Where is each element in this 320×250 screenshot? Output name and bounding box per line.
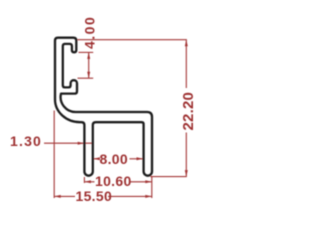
svg-text:22.20: 22.20 xyxy=(180,92,197,131)
dimension 15.50 lines xyxy=(54,111,152,199)
svg-text:1.30: 1.30 xyxy=(10,133,42,149)
dimension 4.00 arrows xyxy=(87,52,90,78)
dimension 10.60 arrows xyxy=(84,180,151,183)
svg-text:15.50: 15.50 xyxy=(76,188,113,204)
dimension 1.30 arrow xyxy=(78,142,85,145)
dimension 4.00 extension lines xyxy=(78,52,94,78)
profile outline xyxy=(55,38,152,176)
svg-text:8.00: 8.00 xyxy=(100,151,128,167)
dimension 10.60 lines xyxy=(84,177,151,183)
svg-text:10.60: 10.60 xyxy=(95,173,132,189)
dimension 8.00 lines xyxy=(93,158,143,160)
svg-text:4.00: 4.00 xyxy=(82,16,98,49)
dimension 1.30 leader line xyxy=(44,142,93,144)
dimension 8.00 arrows xyxy=(93,157,143,160)
dimension 22.20 extension+dimension lines xyxy=(78,40,187,177)
dimension 15.50 arrows xyxy=(54,195,152,198)
dimension 22.20 arrows xyxy=(185,40,188,177)
